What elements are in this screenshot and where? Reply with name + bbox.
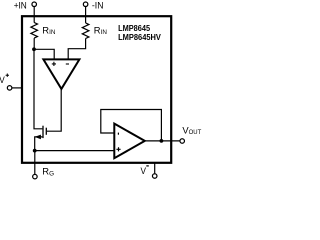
resistor R_IN (right) [82, 23, 89, 39]
svg-text:-IN: -IN [92, 0, 104, 11]
wire U2 output to VOUT [145, 140, 180, 142]
wire +IN to resistor [33, 7, 35, 23]
resistor R_IN (left) [31, 23, 38, 39]
transistor Q1 drain lead with arrow [35, 137, 43, 149]
terminal -IN [83, 2, 88, 7]
terminal R_G [33, 174, 38, 179]
wire right resistor to op-amp - input [68, 39, 85, 60]
svg-text:V: V [0, 74, 5, 85]
wire V+ to box [12, 87, 23, 89]
U2 plus marker [116, 147, 120, 151]
svg-text:LMP8645HV: LMP8645HV [118, 32, 161, 42]
wire node B to buffer + input [35, 150, 115, 152]
U2 minus marker [117, 133, 119, 135]
wire -IN to resistor [85, 7, 87, 23]
op-amp U2 (output buffer, pointing right) [114, 124, 145, 159]
wire resistor to node A [33, 38, 35, 48]
wire U1 output to transistor gate [47, 89, 61, 131]
svg-text:V: V [141, 165, 147, 176]
wire node A to op-amp + input [34, 49, 54, 59]
terminal V- [152, 174, 157, 179]
node A (junction dot below left R_IN) [32, 47, 36, 51]
U1 minus marker [66, 63, 69, 65]
terminal VOUT [180, 139, 185, 144]
wire node B to R_G terminal [34, 151, 36, 174]
transistor Q1 channel bar [42, 126, 44, 138]
feedback wire U2 output to - input [101, 110, 162, 141]
node B (junction at R_G) [33, 149, 37, 153]
op-amp U1 (gm amplifier, pointing down) [43, 59, 79, 89]
svg-text:+IN: +IN [14, 0, 27, 11]
transistor Q1 gate bar [45, 128, 47, 135]
U1 plus marker [52, 62, 56, 66]
node C (output junction) [160, 139, 164, 143]
wire V- to box [154, 162, 156, 173]
wire node A down to transistor source [34, 49, 42, 129]
IC boundary box [22, 16, 171, 163]
terminal V+ [7, 86, 12, 91]
terminal +IN [32, 2, 37, 7]
